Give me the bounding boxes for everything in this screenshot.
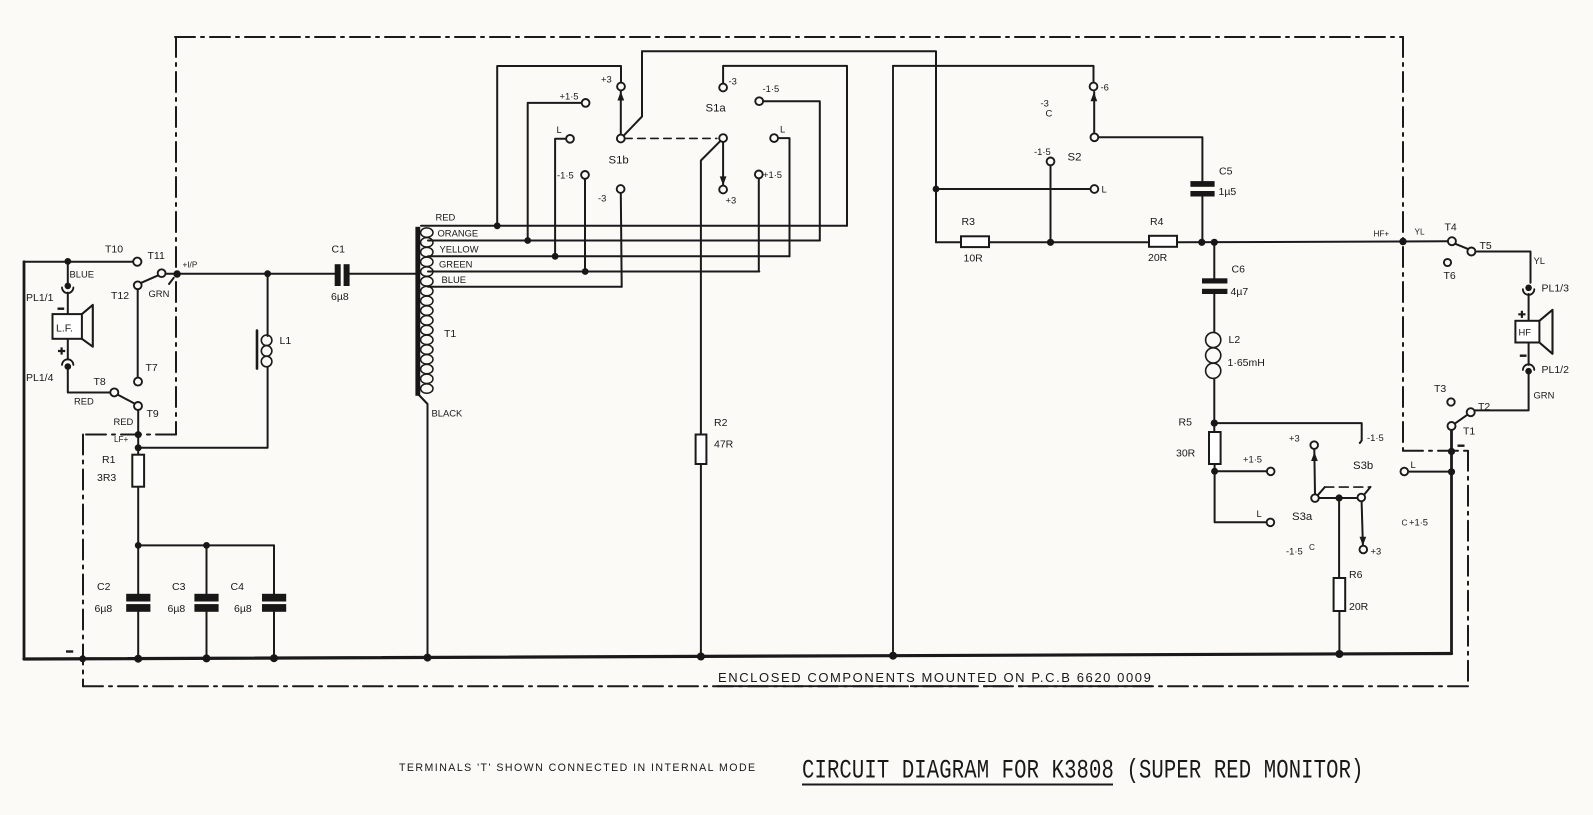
wire: S1b +3 contact to RED tap xyxy=(497,66,621,226)
switch S1b contact L xyxy=(566,135,574,143)
junction dot R1/C2 tee xyxy=(135,542,142,549)
wire: R5 bottom junction to S3a +1.5 contact xyxy=(1215,470,1267,472)
switch S1b contact +3 xyxy=(617,83,625,91)
wire: PL1/3 to HF speaker xyxy=(1528,294,1530,321)
wire: S1a +1.5 contact to GREEN tap end xyxy=(758,178,760,271)
switch S2 contact L xyxy=(1091,185,1099,193)
svg-text:L: L xyxy=(1102,184,1107,195)
svg-text:C5: C5 xyxy=(1219,166,1233,178)
terminal T9 xyxy=(134,402,142,410)
terminal T2 xyxy=(1467,408,1475,416)
switch S3 gang linkage left diagonal xyxy=(1318,487,1325,495)
wire: C6 to L2 xyxy=(1213,294,1215,332)
svg-text:T12: T12 xyxy=(111,290,129,302)
terminal T10 xyxy=(133,258,141,266)
connector PL1/1 socket arc xyxy=(62,287,73,293)
switch S3b pole (gang right) xyxy=(1358,494,1366,502)
svg-text:+1·5: +1·5 xyxy=(1409,517,1428,528)
switch S1a contact L xyxy=(770,134,778,142)
svg-text:T1: T1 xyxy=(444,328,456,340)
junction dot bus C4 xyxy=(270,654,278,662)
junction dot bus S2 drop xyxy=(889,652,897,660)
resistor R1 body xyxy=(132,455,144,487)
switch blade T1-T2 (closed) xyxy=(1455,415,1468,424)
inductor L2 winding xyxy=(1206,332,1221,378)
wire: LF speaker to PL1/4 xyxy=(67,339,69,359)
capacitor C6 plates xyxy=(1202,278,1227,283)
switch S3b contact +3 xyxy=(1360,546,1368,554)
junction dot C3 riser tee xyxy=(203,542,210,549)
label bus minus xyxy=(66,650,73,652)
junction dot bus R6 xyxy=(1335,650,1343,658)
svg-text:C2: C2 xyxy=(97,581,111,593)
connector PL1/2 pin dot xyxy=(1525,368,1532,375)
terminal T1 xyxy=(1448,422,1456,430)
svg-text:L: L xyxy=(1257,508,1262,519)
caption title underline xyxy=(802,784,1113,786)
junction dot C6 branch on crossover wire xyxy=(1211,239,1218,246)
switch S3 gang linkage top bar (dashed) xyxy=(1325,486,1371,488)
wire: S1b +1.5 contact to ORANGE tap xyxy=(528,103,582,241)
capacitor C3 plates xyxy=(194,594,218,602)
svg-text:C: C xyxy=(1402,519,1408,528)
junction dot R5 bottom tee xyxy=(1211,468,1218,475)
svg-text:PL1/3: PL1/3 xyxy=(1542,283,1570,295)
svg-text:C6: C6 xyxy=(1232,264,1246,276)
resistor R5 body xyxy=(1209,432,1221,464)
wire: T12 down to T7 xyxy=(137,289,139,377)
svg-text:GREEN: GREEN xyxy=(439,259,472,270)
svg-text:10R: 10R xyxy=(964,253,984,265)
svg-text:T11: T11 xyxy=(148,250,165,262)
capacitor C4 plates xyxy=(262,594,286,602)
switch S1b contact -1.5 xyxy=(581,171,589,179)
svg-text:CIRCUIT DIAGRAM FOR K3808 (SUP: CIRCUIT DIAGRAM FOR K3808 (SUPER RED MON… xyxy=(802,756,1364,786)
wire: R5 junction to S3b -1.5 contact stub xyxy=(1214,423,1361,443)
switch S1a contact +3 xyxy=(719,186,727,194)
junction dot bus C2 xyxy=(134,655,142,663)
svg-text:47R: 47R xyxy=(714,439,734,451)
switch S3 gang linkage bottom bar xyxy=(1319,497,1358,499)
wire: S1a -3 contact to RED tap end xyxy=(723,66,847,226)
resistor R6 body xyxy=(1334,578,1346,611)
terminal T8 xyxy=(110,388,118,396)
switch S1a wiper arm (points to +3) xyxy=(722,142,724,185)
svg-text:S3a: S3a xyxy=(1292,511,1313,523)
speaker L.F. body xyxy=(53,314,82,339)
wire: main input wire T11 to C1 xyxy=(166,273,335,275)
svg-text:-1·5: -1·5 xyxy=(763,83,780,94)
label LF speaker minus xyxy=(58,308,65,310)
connector PL1/4 socket arc xyxy=(62,359,73,365)
switch S1a contact -3 xyxy=(719,84,727,92)
wire: C4 riser xyxy=(273,545,275,594)
label HF plus xyxy=(1518,311,1525,318)
svg-text:1µ5: 1µ5 xyxy=(1219,186,1237,198)
svg-text:BLACK: BLACK xyxy=(432,408,463,419)
junction dot bus / border crossing xyxy=(79,655,86,662)
svg-text:S2: S2 xyxy=(1068,152,1082,164)
svg-text:L: L xyxy=(557,124,562,135)
svg-text:R4: R4 xyxy=(1150,216,1164,228)
svg-text:S3b: S3b xyxy=(1353,460,1373,472)
svg-text:R2: R2 xyxy=(714,417,728,429)
svg-text:T8: T8 xyxy=(94,376,106,388)
terminal T4 xyxy=(1448,237,1456,245)
wire: S2 common to C5 xyxy=(1098,137,1202,181)
switch S3a contact L xyxy=(1267,519,1275,527)
junction dot S2 -1.5 drop on crossover wire xyxy=(1047,239,1054,246)
wire: L1 top to main input wire xyxy=(267,274,269,336)
speaker HF body xyxy=(1515,321,1539,343)
connector PL1/3 pin dot xyxy=(1525,285,1532,292)
junction dot ORANGE tap / S1b +1.5 xyxy=(524,237,531,244)
wire: left negative bus vertical xyxy=(23,262,26,659)
transformer T1 RED tap wire xyxy=(421,225,847,227)
svg-text:+3: +3 xyxy=(1289,433,1300,444)
svg-text:T9: T9 xyxy=(147,408,159,420)
label right minus xyxy=(1458,445,1465,447)
switch S3 gang linkage right diagonal xyxy=(1364,487,1370,495)
capacitor C2 plates xyxy=(126,594,150,602)
wire: C6 branch riser xyxy=(1213,242,1215,278)
svg-text:YL: YL xyxy=(1415,228,1425,237)
svg-text:-1·5: -1·5 xyxy=(1034,146,1051,157)
switch S1 gang link (dashed) xyxy=(625,137,717,139)
terminal T6 open contact xyxy=(1444,259,1451,266)
junction dot L1 top tee xyxy=(264,270,271,277)
wire: transformer BLACK lead to bus xyxy=(419,395,428,658)
svg-text:+3: +3 xyxy=(1371,546,1382,557)
terminal T5 xyxy=(1467,248,1475,256)
wire: R5 to bottom junction and L contact corner xyxy=(1215,464,1267,522)
switch S1b contact -3 xyxy=(617,185,625,193)
note underline segments xyxy=(717,685,1152,687)
wire: PL1/2 down to T2 xyxy=(1475,375,1529,411)
enclosure border right jog at T1 (dash-dot) xyxy=(1403,450,1468,452)
svg-text:R3: R3 xyxy=(962,216,976,228)
wire: C2 to bus xyxy=(137,612,139,659)
svg-text:GRN: GRN xyxy=(1534,390,1555,401)
wire: T9 down to LF+ junction xyxy=(137,410,139,455)
enclosure border right lower edge (dash-dot) xyxy=(1467,451,1469,686)
junction dot LF+ node xyxy=(135,444,142,451)
wire: S1b common riser diagonal xyxy=(624,51,642,136)
svg-text:1·65mH: 1·65mH xyxy=(1228,357,1265,369)
switch S1a common pole xyxy=(719,134,727,142)
resistor R3 body xyxy=(961,236,989,247)
svg-text:BLUE: BLUE xyxy=(442,274,467,285)
wire: R2 to bus xyxy=(700,464,702,656)
resistor R4 body xyxy=(1149,236,1177,247)
wire: S2 -6 contact to long drop xyxy=(893,66,1094,83)
caption: circuit diagram title xyxy=(802,756,1364,786)
junction dot HF+ border crossing xyxy=(1399,238,1406,245)
svg-text:-3: -3 xyxy=(729,76,737,87)
svg-text:-6: -6 xyxy=(1101,82,1109,93)
terminal T7 xyxy=(134,378,142,386)
svg-text:PL1/2: PL1/2 xyxy=(1542,364,1570,376)
wire: L2 to R5 junction xyxy=(1213,379,1215,433)
wire: S2 -1.5 contact drop to crossover wire xyxy=(1050,165,1052,242)
terminal T3 open contact xyxy=(1447,398,1454,405)
junction dot L contact tee xyxy=(1448,468,1455,475)
wire: blade stub at +I/P pivot xyxy=(169,278,174,284)
switch S1b common pole xyxy=(617,135,625,143)
speaker HF horn xyxy=(1539,310,1552,354)
connector PL1/3 socket arc xyxy=(1523,289,1534,295)
switch S2 common pole xyxy=(1091,133,1099,141)
switch S2 contact -6 xyxy=(1090,83,1098,91)
switch S1b contact +1.5 xyxy=(582,99,590,107)
switch blade T8-T9 (closed) xyxy=(118,395,135,404)
wire: S3 common to R6 xyxy=(1338,498,1340,578)
switch S1a contact +1.5 xyxy=(755,171,763,179)
wire: T5 to YL corner down to PL1/3 xyxy=(1475,252,1530,283)
wire: R1 to C2 xyxy=(137,487,139,594)
inductor L1 core bar xyxy=(256,331,259,369)
switch S2 wiper arrowhead xyxy=(1091,92,1098,101)
svg-text:6µ8: 6µ8 xyxy=(234,603,252,615)
svg-text:6µ8: 6µ8 xyxy=(168,603,186,615)
switch S3a pole (gang left) xyxy=(1311,494,1319,502)
switch S3a wiper arrowhead xyxy=(1311,452,1318,461)
junction dot bus R2 xyxy=(697,653,705,661)
svg-text:T4: T4 xyxy=(1445,222,1457,234)
svg-text:20R: 20R xyxy=(1148,252,1168,264)
connector PL1/1 pin dot xyxy=(65,283,72,290)
enclosure border left jog at LF+ (dash-dot) xyxy=(83,434,176,436)
wire: C3 riser xyxy=(206,545,208,594)
junction dot C5 on crossover wire xyxy=(1198,239,1205,246)
svg-text:20R: 20R xyxy=(1349,601,1369,613)
svg-text:3R3: 3R3 xyxy=(97,472,116,484)
svg-text:L: L xyxy=(780,124,785,135)
wire: long vertical drop to bus xyxy=(892,66,894,656)
connector PL1/2 socket arc xyxy=(1523,364,1534,370)
svg-text:+1·5: +1·5 xyxy=(763,169,782,180)
terminal T11 xyxy=(158,269,166,277)
switch S1a wiper arrowhead xyxy=(720,176,727,185)
junction dot S3 gang centre xyxy=(1336,494,1343,501)
wire: S1b -3 contact to BLUE tap xyxy=(620,193,623,287)
svg-text:HF+: HF+ xyxy=(1374,230,1390,239)
svg-text:ORANGE: ORANGE xyxy=(438,228,479,239)
wire: S1b common top run to R3 branch xyxy=(642,51,936,242)
wire: C5 bottom to crossover wire xyxy=(1201,197,1203,243)
svg-text:4µ7: 4µ7 xyxy=(1231,286,1249,298)
svg-text:-3: -3 xyxy=(598,193,606,204)
wire: C3 to bus xyxy=(206,612,208,659)
transformer T1 core bar xyxy=(415,227,420,396)
svg-text:R1: R1 xyxy=(102,454,116,466)
svg-text:L2: L2 xyxy=(1229,334,1241,346)
junction dot bus BLACK lead xyxy=(424,654,432,662)
capacitor C5 plates xyxy=(1190,181,1214,187)
junction dot RED tap / S1b +3 xyxy=(494,222,501,229)
wire: R3 to R4 xyxy=(989,241,1149,243)
svg-text:S1b: S1b xyxy=(609,155,629,167)
svg-text:-1·5: -1·5 xyxy=(1286,546,1303,557)
terminal T12 xyxy=(134,281,142,289)
switch S2 contact -1.5 xyxy=(1047,158,1055,166)
wire: PL1/1 to LF speaker xyxy=(67,293,69,315)
junction dot T1 riser / border crossing xyxy=(1448,448,1455,455)
svg-text:RED: RED xyxy=(74,396,94,407)
svg-text:6µ8: 6µ8 xyxy=(331,291,349,303)
svg-text:RED: RED xyxy=(114,416,134,427)
svg-text:YL: YL xyxy=(1534,255,1545,266)
svg-text:ENCLOSED COMPONENTS MOUNTED ON: ENCLOSED COMPONENTS MOUNTED ON P.C.B 662… xyxy=(718,670,1152,685)
svg-text:S1a: S1a xyxy=(706,103,727,115)
wire: S1a L contact to YELLOW tap end xyxy=(778,138,790,256)
svg-text:C1: C1 xyxy=(332,244,346,256)
label LF speaker plus xyxy=(58,347,65,354)
switch S3a wiper arm (points to +3) xyxy=(1313,449,1316,494)
svg-text:+3: +3 xyxy=(726,195,737,206)
svg-text:C: C xyxy=(1046,108,1053,119)
wire: T1 down right riser to bus xyxy=(1450,430,1453,654)
switch S1a contact -1.5 xyxy=(755,97,763,105)
junction dot GREEN tap / S1b -1.5 xyxy=(582,268,589,275)
wire: S1b -1.5 contact to GREEN tap xyxy=(584,179,586,272)
svg-text:C4: C4 xyxy=(231,581,245,593)
junction dot LF+ border crossing xyxy=(135,431,142,438)
wire: crossover run to R3 xyxy=(936,241,961,243)
switch S3b wiper arrowhead xyxy=(1360,537,1367,546)
svg-text:T1: T1 xyxy=(1463,426,1475,438)
transformer T1 ORANGE tap wire xyxy=(428,240,820,242)
svg-text:PL1/1: PL1/1 xyxy=(26,292,54,304)
svg-text:T10: T10 xyxy=(105,244,123,256)
svg-text:T2: T2 xyxy=(1478,401,1490,413)
wire: L contact to right riser xyxy=(1408,471,1448,473)
svg-text:PL1/4: PL1/4 xyxy=(26,372,54,384)
wire: R4 to T4 (HF+) xyxy=(1177,241,1448,242)
svg-text:R5: R5 xyxy=(1179,417,1193,429)
svg-text:+3: +3 xyxy=(601,74,612,85)
enclosure border bottom edge (dash-dot) xyxy=(83,685,1468,687)
resistor R2 body xyxy=(696,435,707,465)
svg-text:BLUE: BLUE xyxy=(70,269,95,280)
switch S1b wiper arm (points to +3) xyxy=(620,91,622,135)
svg-text:+1·5: +1·5 xyxy=(560,91,579,102)
junction dot +I/P border crossing xyxy=(173,270,180,277)
svg-text:+1·5: +1·5 xyxy=(1243,454,1262,465)
svg-text:C: C xyxy=(1309,543,1315,552)
transformer T1 winding xyxy=(421,228,433,393)
switch S3b wiper arm (points to +3) xyxy=(1362,501,1363,545)
wire: R6 to bus xyxy=(1338,611,1340,654)
svg-text:-1·5: -1·5 xyxy=(557,170,574,181)
svg-text:-1·5: -1·5 xyxy=(1367,432,1384,443)
svg-text:T3: T3 xyxy=(1434,383,1446,395)
speaker L.F. horn xyxy=(82,305,93,347)
enclosure border left upper edge (dash-dot) xyxy=(175,37,177,435)
wire: C1 to transformer T1 xyxy=(350,273,416,275)
svg-text:6µ8: 6µ8 xyxy=(95,603,113,615)
connector PL1/4 pin dot xyxy=(65,363,72,370)
capacitor C1 plates xyxy=(335,264,341,286)
switch S3a contact +1.5 xyxy=(1267,468,1275,476)
junction dot node A (S2 L branch) xyxy=(933,186,940,193)
wire: S1b L contact to YELLOW tap xyxy=(555,139,566,256)
junction dot YELLOW tap / S1b L xyxy=(552,253,559,260)
wire: BLUE drop to PL1/1 xyxy=(67,261,69,282)
svg-text:+I/P: +I/P xyxy=(183,261,198,270)
enclosure border top edge (dash-dot) xyxy=(175,36,1403,38)
wire: PL1/4 to T8 xyxy=(68,370,110,393)
switch blade T4-T5 (closed) xyxy=(1455,244,1468,249)
wire: S1a common diagonal to R2 xyxy=(701,141,721,435)
enclosure border right upper edge (dash-dot) xyxy=(1402,37,1404,451)
wire: S2 L contact to R3 branch xyxy=(936,188,1091,190)
svg-text:TERMINALS 'T' SHOWN CONNECTED: TERMINALS 'T' SHOWN CONNECTED IN INTERNA… xyxy=(399,762,757,774)
wire: switch blade T12-T11 (closed) xyxy=(141,275,158,283)
junction dot bus C3 xyxy=(203,654,211,662)
svg-text:30R: 30R xyxy=(1176,448,1196,460)
transformer T1 BLUE tap wire xyxy=(428,286,622,288)
svg-text:L: L xyxy=(1411,459,1416,470)
switch S1b wiper arrowhead xyxy=(617,92,624,101)
transformer T1 GREEN tap wire xyxy=(428,271,759,273)
svg-text:L.F.: L.F. xyxy=(56,323,73,335)
switch S2 wiper arm (points to -6) xyxy=(1093,92,1095,133)
label HF minus xyxy=(1520,355,1527,357)
enclosure border left lower edge (dash-dot) xyxy=(82,435,84,687)
switch S3b contact L xyxy=(1401,468,1409,476)
svg-text:R6: R6 xyxy=(1349,569,1363,581)
svg-text:T6: T6 xyxy=(1444,270,1456,282)
svg-text:L1: L1 xyxy=(280,335,292,347)
svg-text:T5: T5 xyxy=(1480,240,1492,252)
wire: HF speaker to PL1/2 xyxy=(1528,343,1530,365)
svg-text:LF+: LF+ xyxy=(114,435,129,444)
transformer T1 YELLOW tap wire xyxy=(428,255,790,257)
svg-text:RED: RED xyxy=(436,212,456,223)
wire: capacitor row horizontal R1-C2-C3-C4 xyxy=(138,544,274,546)
svg-text:HF: HF xyxy=(1519,327,1532,338)
wire: C4 to bus xyxy=(273,612,275,658)
wire: S1a -1.5 contact to ORANGE tap end xyxy=(763,101,820,240)
switch S3a contact +3 xyxy=(1310,441,1318,449)
junction dot L2/R5/S3b tee xyxy=(1211,420,1218,427)
inductor L1 winding xyxy=(261,335,272,367)
svg-text:T7: T7 xyxy=(146,362,158,374)
svg-text:YELLOW: YELLOW xyxy=(440,244,479,255)
junction dot BLUE tee xyxy=(64,258,71,265)
svg-text:C3: C3 xyxy=(172,581,186,593)
wire: LF+ junction to L1 bottom xyxy=(138,368,267,448)
wire: bottom negative bus xyxy=(24,654,1452,660)
wire: top-left horizontal to T10 xyxy=(24,261,133,263)
svg-text:GRN: GRN xyxy=(149,288,170,299)
